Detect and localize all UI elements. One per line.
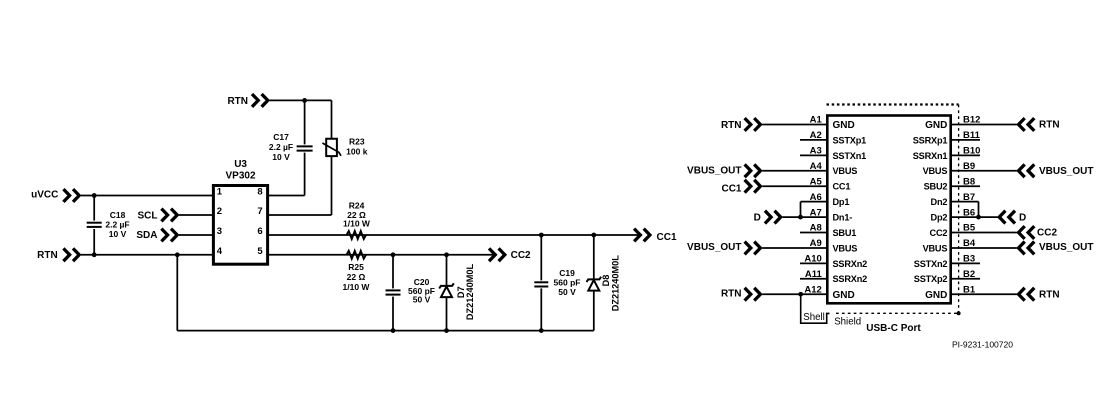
svg-text:Dp2: Dp2 [931,212,948,222]
svg-text:2: 2 [217,206,222,217]
svg-text:B2: B2 [963,269,975,280]
svg-text:SSRXn2: SSRXn2 [833,259,868,269]
svg-text:A7: A7 [810,207,822,218]
svg-text:SSTXp1: SSTXp1 [833,135,867,145]
svg-text:DZ21240M0L: DZ21240M0L [611,255,621,312]
svg-text:1/10 W: 1/10 W [343,282,371,292]
svg-text:GND: GND [833,290,855,301]
svg-text:uVCC: uVCC [31,189,58,200]
svg-text:RTN: RTN [721,120,742,131]
svg-text:D8: D8 [601,275,611,287]
svg-text:VBUS_OUT: VBUS_OUT [687,165,741,176]
svg-text:Dn2: Dn2 [931,197,948,207]
svg-text:B4: B4 [963,238,976,249]
svg-text:RTN: RTN [1039,120,1060,131]
svg-text:SBU2: SBU2 [924,182,948,192]
svg-text:USB-C Port: USB-C Port [866,323,921,334]
svg-text:VBUS_OUT: VBUS_OUT [687,242,741,253]
svg-text:B5: B5 [963,223,976,234]
svg-text:SDA: SDA [136,230,157,241]
svg-text:VBUS_OUT: VBUS_OUT [1039,242,1093,253]
svg-text:SSRXp1: SSRXp1 [913,135,948,145]
svg-text:Shell: Shell [803,312,825,323]
svg-text:B1: B1 [963,284,976,295]
svg-text:B12: B12 [963,115,980,126]
svg-text:SSRXn2: SSRXn2 [833,274,868,284]
svg-text:A12: A12 [804,284,821,295]
svg-text:50 V: 50 V [413,295,431,305]
svg-text:GND: GND [925,290,947,301]
svg-text:B11: B11 [963,130,981,141]
svg-text:A5: A5 [810,176,823,187]
svg-text:1/10 W: 1/10 W [343,219,371,229]
svg-text:PI-9231-100720: PI-9231-100720 [952,340,1013,350]
svg-text:10 V: 10 V [272,152,290,162]
svg-text:VBUS: VBUS [923,243,948,253]
svg-text:A8: A8 [810,223,822,234]
svg-text:C17: C17 [273,132,289,142]
svg-text:D: D [754,212,761,223]
svg-text:Shield: Shield [834,316,861,327]
svg-text:3: 3 [217,226,222,237]
svg-text:GND: GND [833,120,855,131]
svg-text:SSTXn2: SSTXn2 [914,259,948,269]
svg-text:A2: A2 [810,130,822,141]
svg-text:4: 4 [217,246,223,257]
svg-text:SCL: SCL [138,211,158,222]
svg-text:100 k: 100 k [346,146,368,156]
svg-text:D: D [1019,212,1026,223]
svg-text:CC1: CC1 [721,184,741,195]
svg-text:Dp1: Dp1 [833,197,850,207]
svg-text:RTN: RTN [37,250,58,261]
svg-text:B7: B7 [963,192,975,203]
svg-text:SBU1: SBU1 [833,228,857,238]
svg-text:CC1: CC1 [833,182,851,192]
svg-text:CC2: CC2 [1037,228,1057,239]
svg-text:R25: R25 [348,262,364,272]
svg-text:U3: U3 [234,159,247,170]
svg-text:VBUS: VBUS [923,166,948,176]
svg-text:B10: B10 [963,146,980,157]
svg-text:SSRXn1: SSRXn1 [913,151,948,161]
svg-text:R23: R23 [349,137,365,147]
svg-text:DZ21240M0L: DZ21240M0L [465,264,475,321]
svg-text:6: 6 [257,226,262,237]
svg-text:A6: A6 [810,192,822,203]
svg-text:50 V: 50 V [558,287,576,297]
svg-text:10 V: 10 V [109,229,127,239]
svg-text:Dn1-: Dn1- [833,212,853,222]
svg-text:8: 8 [257,187,262,198]
svg-text:B6: B6 [963,207,975,218]
svg-text:A11: A11 [805,269,823,280]
svg-text:SSTXn1: SSTXn1 [833,151,867,161]
svg-text:RTN: RTN [721,289,742,300]
svg-text:5: 5 [257,246,263,257]
svg-text:CC1: CC1 [657,232,677,243]
svg-text:VBUS: VBUS [833,166,858,176]
svg-text:VP302: VP302 [225,171,255,182]
svg-text:CC2: CC2 [930,228,948,238]
svg-text:A1: A1 [810,115,823,126]
svg-text:GND: GND [925,120,947,131]
svg-text:B3: B3 [963,254,975,265]
svg-text:SSTXp2: SSTXp2 [914,274,948,284]
svg-text:B9: B9 [963,161,975,172]
svg-text:2.2 µF: 2.2 µF [269,142,293,152]
svg-text:RTN: RTN [227,96,248,107]
svg-text:A4: A4 [810,161,823,172]
svg-text:22 Ω: 22 Ω [347,272,366,282]
svg-text:A9: A9 [810,238,822,249]
svg-text:1: 1 [217,187,223,198]
svg-text:A3: A3 [810,146,822,157]
svg-text:RTN: RTN [1039,290,1060,301]
svg-text:CC2: CC2 [511,250,531,261]
svg-text:A10: A10 [804,254,821,265]
svg-text:B8: B8 [963,176,975,187]
svg-text:7: 7 [257,206,262,217]
svg-text:VBUS_OUT: VBUS_OUT [1039,166,1093,177]
svg-text:VBUS: VBUS [833,243,858,253]
